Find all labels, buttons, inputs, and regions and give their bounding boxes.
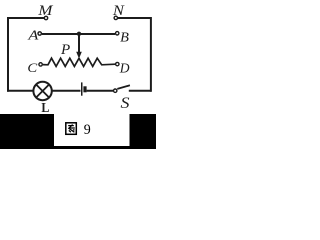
battery long plate bbox=[81, 82, 83, 95]
terminal D circle bbox=[116, 62, 119, 65]
svg-text:C: C bbox=[27, 60, 37, 75]
terminal A circle bbox=[38, 32, 41, 35]
terminal C circle bbox=[39, 63, 42, 66]
wire: top-right horizontal from N to right corner bbox=[118, 17, 151, 19]
terminal B circle bbox=[116, 32, 119, 35]
svg-text:D: D bbox=[119, 62, 130, 77]
wiper arrow stem bbox=[78, 34, 80, 54]
lamp X diagonals bbox=[36, 84, 49, 97]
caption black block right bbox=[130, 114, 157, 149]
svg-text:9: 9 bbox=[84, 122, 91, 138]
svg-text:B: B bbox=[120, 30, 129, 45]
wire: right vertical bbox=[150, 17, 152, 92]
svg-text:S: S bbox=[121, 95, 130, 112]
lamp L circle bbox=[33, 82, 51, 100]
caption glyph 图 outer box bbox=[66, 123, 77, 135]
caption black strip bottom bbox=[54, 146, 130, 149]
svg-text:L: L bbox=[41, 101, 49, 116]
svg-text:N: N bbox=[112, 3, 125, 19]
wire: bottom left segment to lamp bbox=[7, 90, 33, 92]
caption black block left bbox=[0, 114, 54, 149]
caption glyph 图 inner strokes bbox=[68, 125, 75, 133]
wire: switch to right corner bbox=[129, 90, 152, 92]
terminal M circle bbox=[44, 16, 47, 19]
wire: left vertical bbox=[7, 17, 9, 92]
wire: battery to switch bbox=[87, 90, 113, 92]
wire: lamp to battery bbox=[52, 90, 81, 92]
switch pivot circle bbox=[114, 89, 117, 92]
svg-text:P: P bbox=[60, 42, 70, 58]
switch lever bbox=[117, 85, 130, 89]
junction dot on rail bbox=[77, 32, 81, 36]
svg-text:A: A bbox=[27, 29, 39, 44]
wiper arrowhead bbox=[76, 52, 82, 59]
terminal N circle bbox=[114, 16, 117, 19]
resistor zigzag C to D bbox=[43, 58, 116, 66]
svg-text:M: M bbox=[37, 3, 54, 19]
battery short plate bbox=[83, 86, 86, 92]
wire: top-left horizontal from corner to M terminal bbox=[8, 17, 44, 19]
wire: rail A to B bbox=[42, 33, 115, 35]
